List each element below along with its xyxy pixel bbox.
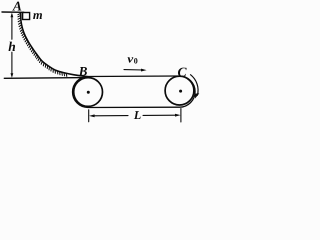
ground line	[4, 77, 87, 80]
h dimension line lower segment with down arrowhead	[11, 52, 13, 75]
svg-text:h: h	[8, 39, 16, 54]
hatching on slide curve	[18, 13, 67, 76]
slide curve from A to B	[21, 13, 88, 76]
platform line at A	[2, 11, 24, 13]
L dimension left tick	[88, 110, 90, 122]
svg-text:A: A	[12, 0, 22, 14]
right pulley C	[165, 76, 194, 105]
svg-text:m: m	[33, 8, 43, 22]
svg-text:L: L	[133, 108, 141, 122]
v0 velocity arrow	[124, 69, 143, 71]
h dimension line upper segment with up arrowhead	[11, 15, 13, 40]
svg-text:0: 0	[134, 57, 138, 66]
L dimension right segment with right arrowhead	[143, 114, 177, 116]
L dimension right tick	[180, 109, 182, 123]
block m	[23, 13, 30, 20]
belt loop around pulleys	[73, 76, 196, 108]
svg-text:C: C	[178, 64, 188, 79]
left pulley B	[74, 78, 103, 107]
rotation arrow at pulley C	[191, 75, 199, 96]
L dimension left segment with left arrowhead	[93, 115, 129, 117]
svg-text:B: B	[78, 64, 88, 79]
